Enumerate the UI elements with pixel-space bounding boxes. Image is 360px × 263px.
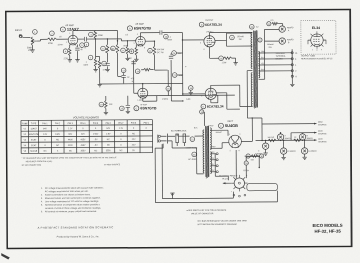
cathode resistor R4	[69, 45, 71, 48]
heater tap wire 1	[210, 153, 216, 155]
filter capacitor C13B	[302, 132, 304, 135]
wire grid V2B	[134, 92, 138, 94]
resistor R10 ref	[148, 48, 153, 53]
wire plate V2B	[142, 84, 144, 88]
wire	[178, 135, 189, 137]
selenium rectifier CR ref	[244, 161, 248, 165]
feedback capacitor C10	[169, 56, 173, 58]
heater feed wire	[214, 154, 216, 176]
chassis return wire inner	[162, 197, 233, 199]
tube V5 ref	[218, 123, 223, 128]
resistor R14 ref	[172, 73, 177, 78]
wire	[278, 23, 283, 25]
capacitor C3 ref	[164, 34, 169, 39]
wire	[76, 51, 78, 59]
screen resistor R10	[153, 46, 156, 55]
tube V5 rectifier	[229, 135, 242, 148]
capacitor C8 ref	[258, 38, 262, 42]
ground	[93, 69, 97, 71]
wire	[99, 68, 101, 84]
wire	[304, 154, 306, 157]
capacitor C7 ref	[230, 35, 235, 40]
feedback wire	[170, 60, 172, 101]
filter choke L1	[268, 139, 276, 142]
ground	[125, 58, 129, 60]
wire	[177, 52, 183, 54]
transformer T1 primary winding	[203, 130, 204, 173]
tube V4 ref	[201, 104, 206, 109]
heater tap wire 4	[210, 171, 216, 173]
capacitor C6 ref	[120, 106, 125, 111]
secondary tap wire 16 ohm	[258, 52, 292, 54]
wire	[258, 157, 260, 168]
bias loop racetrack	[247, 183, 278, 190]
resistor R5 ref	[88, 55, 93, 60]
wire	[252, 117, 262, 119]
alternate tube box	[301, 21, 336, 55]
wire	[69, 56, 71, 60]
filter capacitor C14A	[265, 140, 267, 142]
capacitor C9B	[279, 38, 285, 44]
wire HV bottom	[210, 147, 222, 149]
wire	[22, 36, 30, 38]
wire grid V3	[182, 39, 203, 41]
wire	[232, 57, 236, 59]
ground	[104, 112, 108, 114]
switch SW1 ref	[190, 137, 195, 142]
fuse F1 ref	[192, 152, 197, 157]
grid resistor R5	[95, 57, 97, 59]
capacitor C9A	[279, 26, 285, 32]
capacitor C2 ref	[84, 42, 89, 47]
resistor R4 ref	[63, 49, 68, 54]
resistor R13b	[144, 68, 151, 71]
B+ rail stage wire	[95, 29, 117, 31]
wire	[245, 165, 247, 178]
resistor R16	[167, 90, 170, 92]
wire cathode V2B	[142, 98, 144, 101]
resistor R11 ref	[172, 51, 177, 56]
resistor R8 ref	[111, 46, 116, 51]
wire plate V3	[208, 33, 210, 36]
resistor R12	[99, 56, 101, 60]
filter capacitor C13A	[280, 132, 282, 135]
resistor R6 mid chain	[106, 44, 109, 53]
tube V1A ref	[60, 27, 65, 32]
capacitor C1 ref	[80, 43, 85, 48]
tube V2A ref	[127, 26, 132, 31]
bias capacitor C15 ref	[260, 154, 264, 158]
ground	[75, 60, 79, 62]
transformer T2 primary winding lower	[251, 73, 252, 107]
wire	[167, 91, 169, 96]
wire	[145, 40, 154, 42]
tube V1A triode	[68, 35, 78, 45]
wire screen V3	[215, 39, 226, 41]
line capacitor C11	[176, 134, 179, 143]
resistor R2	[47, 38, 56, 41]
bias resistor R24	[251, 155, 258, 158]
wire grid V4	[183, 93, 205, 95]
corner registration mark	[1, 253, 10, 260]
ground	[302, 157, 306, 159]
wire	[162, 144, 164, 148]
voltage readings table grid	[21, 120, 153, 154]
plate resistor R8	[116, 44, 119, 53]
heater tap ref	[200, 110, 204, 114]
wire	[120, 39, 122, 41]
secondary tap wire common	[259, 70, 293, 72]
filter resistor R22	[294, 139, 302, 142]
heater riser wire	[204, 112, 206, 126]
wire	[291, 79, 293, 84]
wire	[168, 140, 172, 142]
resistor R12 ref	[102, 61, 107, 66]
input jack J1	[19, 34, 22, 37]
wire	[31, 45, 33, 49]
resistor R2 ref	[50, 31, 55, 36]
capacitor C4	[121, 75, 125, 77]
wire	[223, 182, 231, 184]
socket pin stub circles	[233, 194, 235, 196]
transformer T2 primary center tap wire	[247, 70, 252, 72]
coupling capacitor C3	[160, 30, 162, 34]
resistor R23	[272, 22, 278, 25]
wire cathode V4	[210, 100, 212, 103]
wire	[190, 90, 192, 92]
heater tap wire 2	[210, 159, 216, 161]
wire	[95, 67, 97, 70]
tube V2A triode	[136, 36, 146, 46]
wire cathode V3	[209, 47, 211, 58]
capacitor C6	[126, 105, 130, 107]
wire	[105, 108, 107, 112]
ground	[68, 60, 72, 62]
secondary tap wire 8 ohm	[258, 58, 292, 60]
resistor R18	[105, 100, 108, 108]
wire	[171, 193, 173, 198]
transformer T2 ref	[249, 24, 254, 29]
heater tap wire 3	[210, 165, 216, 167]
ground	[189, 92, 193, 94]
secondary bottom tap wire	[259, 78, 265, 80]
bypass capacitor C1	[76, 45, 78, 48]
tube V2B ref	[134, 106, 139, 111]
resistor R7 extra	[126, 46, 129, 54]
wire B+ rail 140V	[256, 139, 317, 141]
wire HV top	[210, 129, 228, 131]
tube V4 pentode	[205, 88, 216, 100]
transformer T1 core	[206, 126, 209, 177]
junction	[252, 117, 253, 118]
wire B+ rail 340V	[291, 132, 316, 134]
wire	[261, 124, 263, 140]
wire screen V4	[216, 92, 226, 94]
rectifier filament wire	[235, 150, 237, 178]
ground	[233, 63, 237, 65]
wire feedback rail	[100, 82, 183, 85]
volume control R1 ref	[33, 30, 38, 35]
wire	[264, 28, 279, 30]
wire	[118, 75, 122, 77]
wire	[265, 149, 267, 153]
junction	[95, 38, 96, 39]
ground	[126, 111, 130, 113]
wire	[195, 135, 204, 137]
wire plate V2A	[139, 33, 141, 37]
coupling capacitor C2	[78, 38, 84, 40]
wire	[283, 154, 285, 157]
wire	[94, 39, 96, 57]
ground	[134, 59, 138, 61]
ground	[263, 153, 267, 155]
wire	[245, 155, 246, 157]
resistor R9 ref	[129, 49, 134, 54]
ground	[290, 84, 294, 86]
wire	[264, 40, 278, 42]
bottom signal rail wire	[140, 94, 235, 97]
secondary tap wire 4 ohm	[259, 64, 293, 66]
wire plate V4	[210, 85, 212, 88]
wire	[127, 54, 129, 58]
tube V3 pentode	[204, 35, 215, 47]
cathode resistor R9	[135, 45, 137, 48]
resistor R15	[156, 96, 158, 101]
socket P1 octal	[234, 178, 244, 188]
resistor R20 ref	[219, 56, 224, 61]
resistor R6 ref	[101, 46, 106, 51]
wire	[36, 40, 40, 42]
plate resistor R3	[94, 30, 97, 38]
transformer T1 secondary HV winding	[210, 128, 211, 150]
ground	[105, 69, 109, 71]
tube V2B triode	[138, 88, 148, 99]
resistor R16 ref	[166, 86, 171, 91]
resistor R7 ref	[121, 48, 126, 53]
wire	[107, 53, 109, 62]
filter capacitor C14B	[283, 140, 285, 147]
wire	[177, 74, 182, 76]
transformer T2 primary winding upper	[251, 33, 252, 69]
wire	[135, 55, 137, 59]
alternate tube EL34 symbol	[311, 34, 323, 46]
resistor R17 ref	[188, 86, 193, 91]
wire plate V1A	[72, 31, 74, 36]
wire	[263, 29, 265, 79]
speaker terminal strip	[291, 49, 293, 79]
ground	[98, 84, 102, 86]
decoupling capacitor C5	[105, 63, 109, 65]
AC interlock plug	[161, 134, 168, 144]
tube V3 ref	[199, 22, 204, 27]
wire	[95, 38, 121, 40]
resistor R23 ref	[267, 22, 271, 26]
transformer T2 secondary winding	[258, 51, 259, 77]
resistor R3 ref	[89, 32, 94, 37]
transformer T2 core	[254, 31, 258, 108]
line capacitor C12	[183, 134, 186, 143]
wire	[56, 38, 68, 40]
wire	[168, 135, 175, 137]
chassis return wire outer	[155, 201, 277, 204]
transformer T1 heater windings	[210, 152, 211, 174]
ground	[30, 50, 34, 52]
resistor R20	[224, 57, 232, 60]
filter capacitor C14C	[304, 140, 306, 147]
potentiometer R1 500K VOL	[31, 37, 34, 46]
wire B+ from rectifier	[241, 140, 252, 142]
bias resistor R24 ref	[246, 154, 250, 158]
capacitor C4 ref	[121, 68, 126, 73]
junction	[280, 140, 281, 141]
vertical bus wire	[181, 32, 183, 95]
wire B+ rail 465V	[262, 123, 316, 125]
resistor R13 ref	[135, 69, 140, 74]
ground	[281, 157, 285, 159]
wire	[154, 55, 156, 70]
wire	[116, 41, 118, 44]
resistor R18 ref	[99, 102, 104, 107]
